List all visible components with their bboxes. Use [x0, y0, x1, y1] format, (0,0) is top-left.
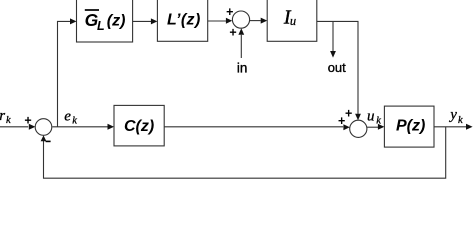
svg-text:L: L: [97, 19, 105, 33]
svg-text:k: k: [458, 115, 463, 126]
svg-text:+: +: [229, 25, 236, 39]
svg-text:r: r: [0, 108, 5, 124]
svg-text:y: y: [448, 107, 457, 123]
svg-text:+: +: [345, 106, 352, 120]
svg-text:L’(z): L’(z): [167, 12, 201, 29]
svg-text:+: +: [338, 114, 345, 128]
svg-text:u: u: [290, 14, 296, 28]
svg-text:u: u: [367, 108, 375, 124]
svg-text:(z): (z): [107, 13, 126, 30]
svg-text:in: in: [237, 60, 248, 75]
svg-text:out: out: [328, 60, 346, 75]
svg-text:C(z): C(z): [124, 118, 154, 135]
svg-text:+: +: [24, 114, 31, 128]
svg-text:+: +: [226, 5, 233, 19]
svg-text:P(z): P(z): [396, 117, 425, 134]
svg-text:k: k: [72, 116, 77, 127]
svg-text:k: k: [376, 116, 381, 127]
svg-text:k: k: [6, 115, 11, 126]
svg-text:e: e: [64, 108, 71, 124]
